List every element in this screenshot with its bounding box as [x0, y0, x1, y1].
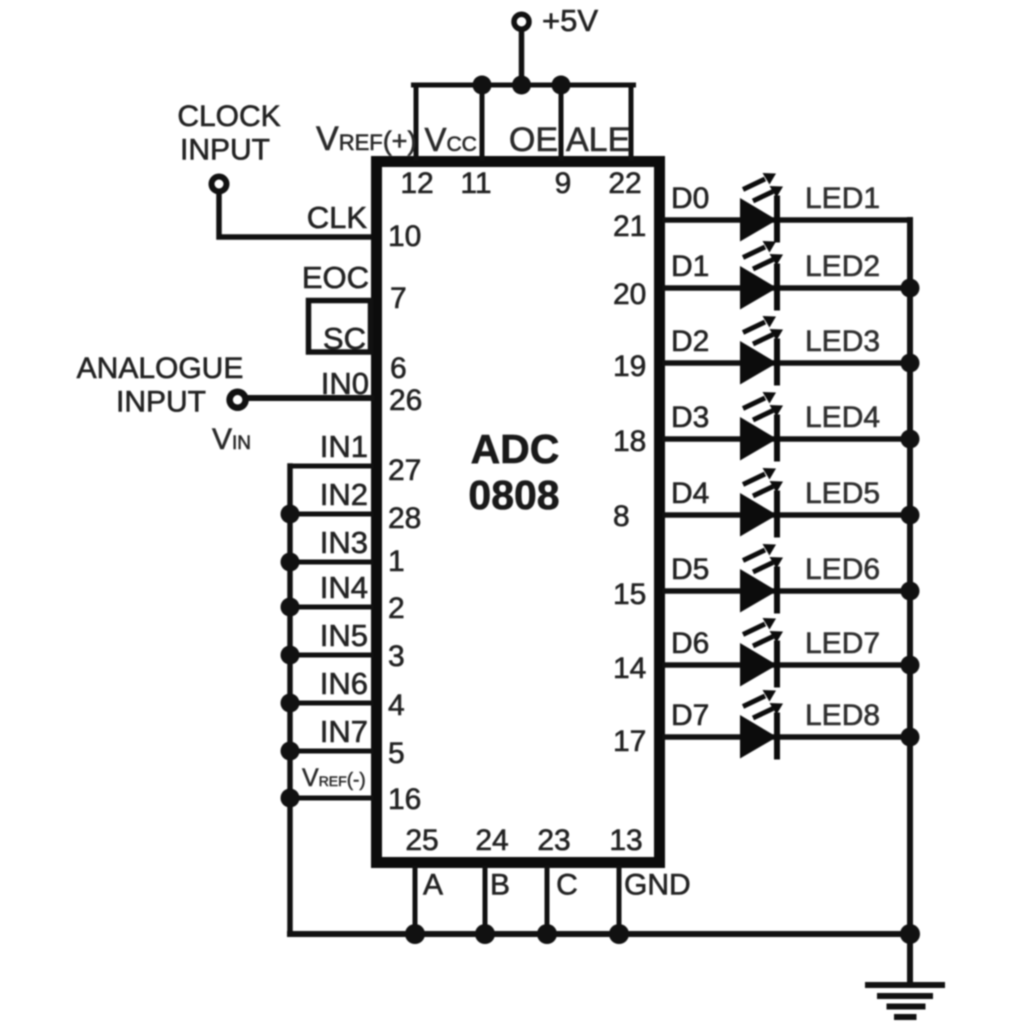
svg-text:8: 8	[613, 500, 630, 533]
svg-text:IN1: IN1	[320, 429, 368, 464]
LED LED7 diode	[740, 618, 783, 688]
junction input bus	[281, 646, 300, 665]
wire clock to CLK pin 10	[219, 193, 371, 237]
svg-text:LED6: LED6	[805, 553, 880, 586]
svg-text:0808: 0808	[468, 472, 559, 518]
svg-text:IN3: IN3	[320, 525, 368, 560]
junction input bus	[281, 789, 300, 808]
svg-text:B: B	[490, 868, 510, 901]
LED LED8 diode	[740, 690, 783, 760]
svg-text:LED7: LED7	[805, 627, 880, 660]
label OE pin 9	[509, 121, 558, 159]
svg-text:EOC: EOC	[302, 260, 369, 295]
wire address pin C	[545, 868, 550, 934]
svg-text:23: 23	[537, 824, 570, 857]
wire address pin B	[483, 868, 488, 934]
svg-text:INPUT: INPUT	[116, 385, 206, 418]
junction LED rail	[901, 279, 920, 298]
svg-text:D0: D0	[671, 182, 709, 215]
wire data output D0	[665, 217, 910, 223]
analogue input terminal VIN	[230, 392, 246, 408]
wire IN6 pin 4	[290, 701, 371, 706]
wire top rail	[414, 83, 634, 88]
junction LED rail	[901, 656, 920, 675]
junction rail to ground bus	[900, 924, 920, 944]
junction LED rail	[901, 582, 920, 601]
junction bottom bus	[475, 924, 495, 944]
wire left input bus	[287, 466, 293, 934]
label VREF(+) pin 12	[316, 120, 416, 158]
junction LED rail	[901, 506, 920, 525]
svg-text:25: 25	[405, 824, 438, 857]
wire data output D3	[665, 436, 910, 442]
junction dot +5V feed	[512, 76, 531, 95]
svg-text:D4: D4	[671, 477, 709, 510]
EOC-SC feedback box	[309, 301, 371, 353]
svg-text:IN7: IN7	[320, 714, 368, 749]
junction dot VCC	[473, 76, 492, 95]
junction input bus	[281, 553, 300, 572]
svg-text:ALE: ALE	[566, 121, 630, 159]
wire IN5 pin 3	[290, 653, 371, 658]
svg-text:D7: D7	[671, 699, 709, 732]
svg-text:11: 11	[460, 167, 491, 200]
ground symbol	[865, 985, 945, 1017]
svg-text:13: 13	[609, 824, 642, 857]
wire VCC box left / pin12 drop	[414, 85, 419, 158]
svg-text:LED3: LED3	[805, 325, 880, 358]
junction LED rail	[901, 354, 920, 373]
svg-text:5: 5	[388, 737, 405, 770]
svg-text:ANALOGUE: ANALOGUE	[77, 352, 244, 385]
svg-text:21: 21	[613, 210, 646, 243]
svg-text:LED1: LED1	[805, 182, 880, 215]
svg-text:2: 2	[388, 592, 405, 625]
LED LED1 diode	[740, 173, 783, 243]
wire OE box right / pin9 drop	[559, 85, 564, 158]
svg-text:7: 7	[390, 282, 407, 315]
junction bottom bus	[609, 924, 629, 944]
wire data output D7	[665, 734, 910, 740]
svg-text:D5: D5	[671, 553, 709, 586]
junction input bus	[281, 694, 300, 713]
wire IN3 pin 1	[290, 560, 371, 565]
svg-text:D6: D6	[671, 627, 709, 660]
svg-text:16: 16	[388, 783, 421, 816]
junction input bus	[281, 505, 300, 524]
svg-text:IN0: IN0	[321, 366, 369, 401]
svg-text:22: 22	[608, 167, 641, 200]
svg-text:26: 26	[389, 384, 422, 417]
svg-text:LED5: LED5	[805, 477, 880, 510]
svg-text:OE: OE	[509, 121, 558, 159]
svg-text:20: 20	[613, 278, 646, 311]
+5V supply terminal	[514, 3, 598, 38]
svg-text:24: 24	[475, 824, 508, 857]
svg-text:SC: SC	[323, 321, 366, 356]
label VIN	[212, 423, 251, 456]
LED LED5 diode	[740, 468, 783, 538]
wire bottom ground bus	[290, 931, 910, 937]
svg-text:LED2: LED2	[805, 250, 880, 283]
wire IN2 pin 28	[290, 512, 371, 517]
CLOCK INPUT label	[177, 100, 280, 167]
svg-text:4: 4	[388, 689, 405, 722]
wire address pin GND	[617, 868, 622, 934]
wire LED common cathode rail	[907, 220, 913, 984]
IC U1 ADC0808 body	[377, 162, 660, 863]
wire data output D1	[665, 285, 910, 291]
svg-text:12: 12	[400, 167, 433, 200]
LED LED3 diode	[740, 316, 783, 386]
svg-text:18: 18	[613, 425, 646, 458]
svg-text:15: 15	[613, 578, 646, 611]
svg-text:19: 19	[613, 350, 646, 383]
svg-text:GND: GND	[624, 868, 691, 901]
wire data output D2	[665, 360, 910, 366]
svg-text:CLOCK: CLOCK	[177, 100, 280, 133]
svg-text:IN6: IN6	[320, 666, 368, 701]
junction LED rail	[901, 430, 920, 449]
svg-text:INPUT: INPUT	[180, 133, 270, 166]
svg-text:C: C	[556, 868, 578, 901]
svg-text:28: 28	[388, 502, 421, 535]
wire IN4 pin 2	[290, 605, 371, 610]
junction LED rail	[901, 728, 920, 747]
junction dot OE/ALE	[552, 76, 571, 95]
svg-text:10: 10	[388, 220, 421, 253]
svg-text:LED8: LED8	[805, 699, 880, 732]
svg-text:CLK: CLK	[307, 200, 368, 235]
svg-text:IN4: IN4	[320, 570, 368, 605]
ANALOGUE INPUT label	[77, 352, 244, 419]
label VCC pin 11	[425, 121, 477, 158]
junction bottom bus	[405, 924, 425, 944]
svg-text:D1: D1	[671, 250, 709, 283]
svg-text:A: A	[423, 868, 443, 901]
junction input bus	[281, 742, 300, 761]
wire VCC box right / pin11 drop	[480, 85, 485, 158]
svg-text:1: 1	[388, 545, 405, 578]
svg-text:IN2: IN2	[320, 477, 368, 512]
label VREF(-) pin 16	[302, 764, 366, 792]
wire IN7 pin 5	[290, 749, 371, 754]
LED LED4 diode	[740, 392, 783, 462]
junction bottom bus	[537, 924, 557, 944]
svg-text:9: 9	[555, 167, 572, 200]
svg-text:LED4: LED4	[805, 401, 880, 434]
junction input bus	[281, 598, 300, 617]
svg-text:14: 14	[613, 652, 646, 685]
wire ALE box right / pin22 drop	[629, 85, 634, 158]
wire address pin A	[413, 868, 418, 934]
wire analogue input to IN0 pin 26	[246, 395, 371, 401]
wire data output D6	[665, 662, 910, 668]
wire data output D4	[665, 512, 910, 518]
wire VREF(-) pin 16	[290, 796, 371, 801]
wire data output D5	[665, 588, 910, 594]
svg-text:ADC: ADC	[471, 426, 560, 472]
svg-text:27: 27	[388, 454, 421, 487]
svg-text:6: 6	[390, 352, 407, 385]
LED LED2 diode	[740, 241, 783, 311]
clock input terminal	[212, 177, 227, 192]
label ALE pin 22	[566, 121, 630, 159]
svg-text:17: 17	[613, 725, 646, 758]
svg-text:D2: D2	[671, 325, 709, 358]
wire +5V vertical	[519, 30, 525, 85]
svg-text:3: 3	[388, 640, 405, 673]
LED LED6 diode	[740, 544, 783, 614]
wire IN1 pin 27	[290, 464, 371, 469]
svg-text:D3: D3	[671, 401, 709, 434]
svg-text:IN5: IN5	[320, 618, 368, 653]
svg-text:+5V: +5V	[542, 3, 598, 38]
